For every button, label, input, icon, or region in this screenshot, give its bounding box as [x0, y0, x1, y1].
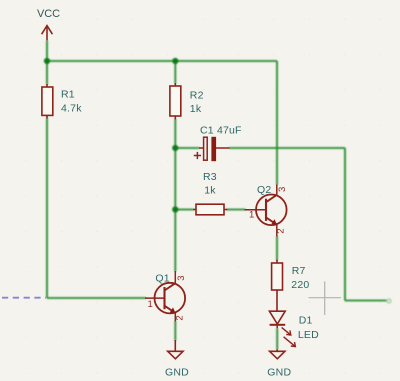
svg-text:220: 220 [291, 279, 309, 291]
svg-text:Q1: Q1 [155, 273, 169, 285]
svg-text:3: 3 [277, 187, 288, 192]
svg-text:4.7k: 4.7k [61, 102, 82, 114]
svg-text:1: 1 [148, 299, 153, 310]
svg-text:VCC: VCC [37, 8, 60, 20]
svg-text:LED: LED [298, 329, 319, 341]
svg-text:GND: GND [165, 367, 189, 379]
svg-text:R7: R7 [292, 265, 306, 277]
svg-text:GND: GND [267, 367, 291, 379]
svg-text:R3: R3 [203, 171, 217, 183]
svg-text:1k: 1k [190, 103, 202, 115]
svg-text:2: 2 [174, 315, 185, 320]
svg-text:1k: 1k [204, 184, 216, 196]
svg-text:C1 47uF: C1 47uF [200, 124, 242, 136]
svg-text:Q2: Q2 [257, 184, 271, 196]
svg-text:D1: D1 [299, 315, 313, 327]
svg-text:1: 1 [249, 210, 254, 221]
svg-text:R1: R1 [61, 89, 75, 101]
svg-text:2: 2 [275, 228, 286, 233]
svg-text:3: 3 [176, 276, 187, 281]
svg-text:R2: R2 [190, 89, 204, 101]
